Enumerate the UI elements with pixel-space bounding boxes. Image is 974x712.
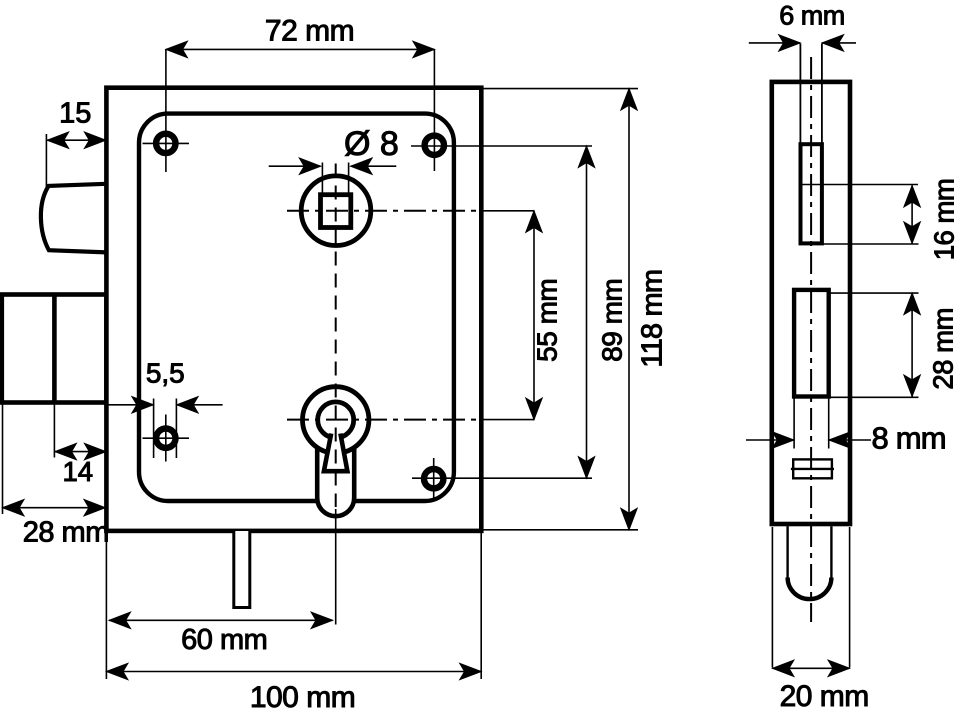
svg-text:20 mm: 20 mm	[780, 680, 869, 712]
centerline horizontal through keyhole	[287, 419, 483, 421]
spindle stem lines	[800, 44, 822, 146]
upper slot 16 mm	[801, 144, 822, 243]
svg-text:15: 15	[59, 98, 91, 130]
svg-text:89 mm: 89 mm	[597, 279, 628, 362]
dimension 28 mm deadbolt	[3, 405, 106, 515]
svg-text:6 mm: 6 mm	[779, 1, 845, 31]
dimension 6 mm top	[749, 42, 856, 44]
side body rectangle	[772, 82, 850, 524]
svg-text:Ø 8: Ø 8	[344, 125, 399, 163]
keyhole inner circle	[318, 402, 354, 438]
side centerline vertical dash-dot	[810, 57, 812, 622]
keyhole slot trapezoid	[324, 434, 348, 472]
deadbolt (left, rectangular)	[2, 295, 107, 403]
FRONT VIEW GROUP	[2, 15, 669, 712]
lock body outer rectangle	[106, 88, 481, 531]
keyhole escutcheon extension	[317, 449, 354, 516]
dimension 72 mm top	[166, 49, 435, 172]
screw hole bottom-left	[143, 415, 190, 462]
follower square spindle hole	[321, 195, 351, 228]
SIDE VIEW GROUP	[746, 1, 960, 712]
dimension 15 latch	[46, 134, 106, 187]
dimension 5,5 hole	[107, 399, 223, 459]
centerline horizontal through follower	[287, 210, 483, 212]
screw hole top-left	[143, 134, 190, 153]
svg-text:14: 14	[63, 456, 94, 487]
follower circle	[301, 176, 371, 246]
dimension 60 mm	[109, 619, 333, 621]
svg-text:60 mm: 60 mm	[181, 624, 267, 656]
cover plate rounded rectangle	[139, 114, 454, 501]
dimension 89 mm vertical	[411, 146, 592, 478]
keyhole outer circle	[303, 387, 369, 453]
dimension 100 mm	[106, 533, 481, 679]
dimension 16 mm right	[802, 185, 919, 245]
dimension 55 mm vertical	[483, 211, 534, 420]
svg-text:28 mm: 28 mm	[23, 517, 109, 549]
svg-text:5,5: 5,5	[146, 358, 185, 389]
lower slot 28 mm	[794, 290, 829, 397]
svg-text:8 mm: 8 mm	[872, 421, 946, 456]
small staple rectangle	[791, 459, 834, 478]
svg-text:16 mm: 16 mm	[929, 179, 960, 261]
svg-text:118 mm: 118 mm	[637, 270, 669, 368]
fixing pin below body	[234, 531, 250, 608]
latch bolt (left, beveled)	[41, 184, 107, 253]
svg-text:100 mm: 100 mm	[250, 681, 355, 712]
svg-text:72 mm: 72 mm	[265, 15, 354, 48]
centerline vertical dashed	[335, 164, 337, 625]
dimension 28 mm right	[795, 293, 919, 397]
dimension diameter 8 follower	[269, 163, 397, 197]
svg-text:55 mm: 55 mm	[532, 279, 563, 362]
dimension 118 mm vertical	[483, 89, 638, 530]
screw hole top-right	[425, 136, 444, 155]
svg-text:28 mm: 28 mm	[928, 308, 959, 390]
dimension 14 deadbolt	[54, 405, 106, 458]
bottom pin side view	[788, 526, 832, 599]
screw hole bottom-right	[424, 458, 443, 501]
dimension 8 mm	[746, 398, 871, 449]
dimension 20 mm bottom	[772, 527, 849, 668]
